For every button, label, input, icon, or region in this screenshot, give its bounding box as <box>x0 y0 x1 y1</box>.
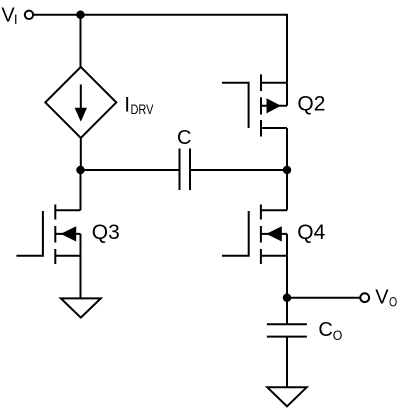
svg-text:O: O <box>389 295 397 310</box>
wire VI to node A <box>33 14 80 16</box>
svg-text:I: I <box>14 12 18 27</box>
svg-text:O: O <box>333 328 343 343</box>
transistor Q3 <box>16 205 80 265</box>
svg-text:Q4: Q4 <box>297 221 325 244</box>
svg-text:Q3: Q3 <box>92 221 120 244</box>
svg-text:DRV: DRV <box>131 102 154 117</box>
wire node D to capacitor CO <box>286 298 288 324</box>
wire Q3 source to ground <box>80 256 82 299</box>
node B junction <box>76 166 85 175</box>
wire node C to Q4 drain <box>286 170 288 210</box>
svg-text:V: V <box>375 287 389 309</box>
wire top rail node A to Q2 drain corner <box>81 14 288 16</box>
svg-text:Q2: Q2 <box>297 93 325 116</box>
svg-text:I: I <box>124 94 130 117</box>
wire node B to capacitor C <box>81 169 180 171</box>
terminal VI <box>25 11 33 19</box>
wire Q2 source to node C <box>286 128 288 170</box>
node C junction <box>283 166 292 175</box>
svg-text:C: C <box>177 127 191 149</box>
wire node D to terminal VO <box>287 297 360 299</box>
wire capacitor CO to ground <box>286 337 288 388</box>
current source IDRV <box>45 67 116 138</box>
wire node A to IDRV top <box>80 15 82 67</box>
node D junction <box>283 293 292 302</box>
node A junction <box>76 11 85 19</box>
transistor Q4 <box>222 205 287 265</box>
wire Q2 drain vertical <box>286 14 288 83</box>
capacitor CO <box>267 324 307 336</box>
wire capacitor C to node C <box>190 169 287 171</box>
terminal VO <box>360 293 369 302</box>
ground output <box>267 387 306 406</box>
wire node B to Q3 drain <box>80 170 82 210</box>
ground Q3 source <box>61 298 101 317</box>
svg-text:C: C <box>318 319 332 341</box>
capacitor C <box>180 149 191 191</box>
wire Q4 source to node D <box>286 256 288 298</box>
wire IDRV bottom to node B <box>80 138 82 170</box>
transistor Q2 <box>222 74 287 136</box>
